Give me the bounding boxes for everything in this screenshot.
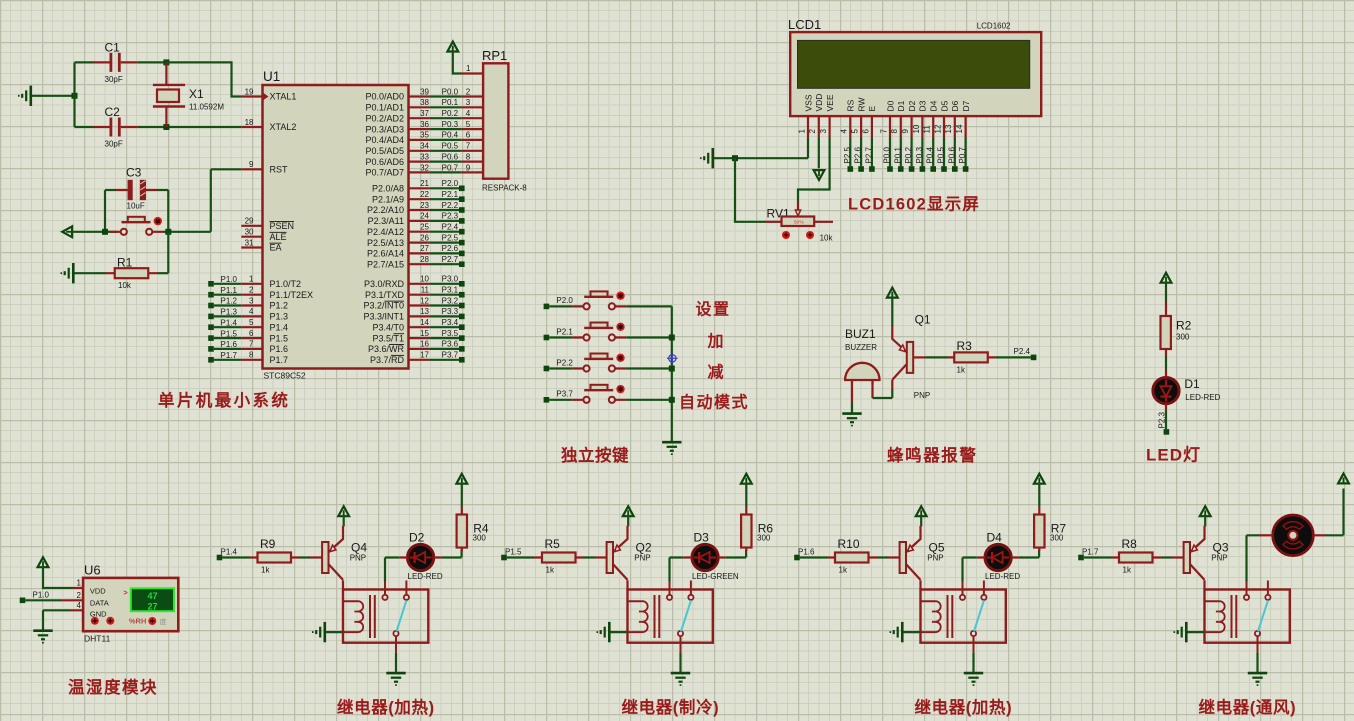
node P2.0 terminal (544, 304, 550, 310)
svg-text:28: 28 (420, 255, 429, 264)
wire (222, 556, 249, 558)
svg-text:PNP: PNP (927, 554, 943, 563)
RP1 pin stubs (462, 74, 483, 173)
svg-text:P2.7/A15: P2.7/A15 (367, 259, 404, 269)
wire (167, 190, 169, 232)
svg-text:RS: RS (846, 99, 856, 111)
wire (343, 516, 345, 527)
wire (441, 550, 461, 558)
svg-text:23: 23 (420, 201, 429, 210)
svg-text:继电器(加热): 继电器(加热) (915, 697, 1013, 717)
svg-text:X1: X1 (189, 87, 204, 101)
wire (626, 399, 672, 401)
ground (relay coil) (890, 622, 902, 642)
svg-text:P0.7/AD7: P0.7/AD7 (365, 168, 404, 178)
svg-text:RST: RST (270, 165, 289, 175)
power flag (RP1) (447, 42, 458, 52)
wire (851, 403, 853, 413)
wire (157, 189, 168, 191)
buzzer BUZ1 (845, 327, 880, 403)
power flag (motor) (1338, 474, 1349, 484)
svg-text:度: 度 (160, 617, 167, 626)
wire to RV1 (735, 158, 766, 222)
wire (461, 483, 463, 507)
node P1.4 terminal (217, 555, 223, 561)
svg-text:37: 37 (420, 109, 429, 118)
wire (670, 558, 684, 582)
svg-text:1: 1 (797, 129, 806, 134)
buzzer right leg (871, 380, 873, 398)
relay (加热) (921, 581, 1006, 653)
svg-text:独立按键: 独立按键 (561, 445, 629, 465)
junction (165, 229, 171, 235)
wire (32, 95, 75, 97)
motor (fan) (1273, 515, 1314, 556)
push button P2.0 (572, 291, 626, 309)
svg-text:D2: D2 (907, 100, 917, 111)
wire (1019, 550, 1039, 558)
svg-text:P0.0: P0.0 (442, 87, 459, 96)
svg-text:LED灯: LED灯 (1146, 446, 1201, 465)
power flag (Q4) (338, 506, 349, 516)
svg-text:P0.7: P0.7 (442, 163, 459, 172)
ground (reset section) (61, 263, 73, 283)
svg-text:P3.5: P3.5 (442, 329, 459, 338)
svg-text:P2.0: P2.0 (442, 179, 459, 188)
svg-text:E: E (867, 106, 877, 112)
svg-text:1k: 1k (1123, 566, 1132, 575)
svg-text:300: 300 (1176, 333, 1190, 342)
svg-text:D1: D1 (896, 100, 906, 111)
power flag (LED) (1161, 273, 1172, 283)
svg-text:P2.5: P2.5 (442, 233, 459, 242)
svg-text:LED-RED: LED-RED (408, 572, 443, 581)
wire (385, 558, 399, 582)
power flag (R4) (456, 474, 467, 484)
svg-text:P1.1/T2EX: P1.1/T2EX (270, 290, 314, 300)
ground (relay contact) (671, 673, 690, 685)
svg-text:5: 5 (851, 129, 860, 134)
svg-text:P1.1: P1.1 (221, 286, 238, 295)
svg-text:8: 8 (890, 129, 899, 134)
svg-text:P0.5: P0.5 (937, 146, 946, 163)
node P1.0 terminal (20, 598, 26, 604)
wire (549, 399, 572, 401)
svg-text:BUZZER: BUZZER (845, 343, 877, 352)
svg-text:5: 5 (466, 120, 471, 129)
svg-text:P2.7: P2.7 (864, 146, 873, 163)
power flag (Q3) (1200, 506, 1211, 516)
wire (326, 631, 343, 633)
node P2.2 terminal (544, 366, 550, 372)
svg-text:设置: 设置 (696, 301, 731, 319)
ground (relay contact) (964, 673, 983, 685)
svg-text:3: 3 (819, 129, 828, 134)
svg-text:P3.7: P3.7 (556, 390, 573, 399)
wire (75, 126, 94, 128)
svg-text:30pF: 30pF (105, 140, 123, 149)
junction (163, 59, 169, 65)
wire (891, 297, 893, 326)
svg-text:蜂鸣器报警: 蜂鸣器报警 (887, 445, 978, 465)
svg-text:8: 8 (249, 351, 254, 360)
svg-text:21: 21 (420, 179, 429, 188)
wire (1204, 516, 1206, 527)
resistor R9 (250, 537, 300, 575)
wire (72, 231, 117, 233)
svg-text:39: 39 (420, 87, 429, 96)
svg-text:P0.6: P0.6 (947, 146, 956, 163)
wire (800, 556, 827, 558)
wire (549, 336, 572, 338)
wire (877, 556, 888, 558)
capacitor C3 (116, 166, 157, 211)
node P1.6 terminal (794, 555, 800, 561)
svg-text:D4: D4 (929, 100, 939, 111)
svg-text:P3.5/T1: P3.5/T1 (372, 333, 404, 343)
wire (1165, 357, 1167, 370)
svg-text:32: 32 (420, 163, 429, 172)
svg-text:P0.2/AD2: P0.2/AD2 (365, 113, 404, 123)
svg-text:GND: GND (90, 610, 107, 619)
wire collector (1203, 580, 1205, 589)
wire collector (626, 580, 628, 589)
resistor R6 (741, 507, 773, 552)
svg-text:DATA: DATA (90, 598, 109, 607)
svg-text:P1.4: P1.4 (221, 318, 238, 327)
svg-text:>: > (124, 590, 128, 597)
U1 left pin stubs (241, 97, 262, 360)
LCD1 pin numbers (797, 124, 964, 133)
diode D4 LED-RED (977, 530, 1021, 581)
relay (通风) (1205, 581, 1290, 653)
svg-text:P0.4: P0.4 (926, 146, 935, 163)
svg-text:P1.7: P1.7 (270, 355, 289, 365)
svg-text:9: 9 (466, 163, 471, 172)
svg-text:U6: U6 (84, 563, 101, 578)
svg-text:26: 26 (420, 233, 429, 242)
svg-text:P3.3/INT1: P3.3/INT1 (363, 312, 404, 322)
svg-text:29: 29 (245, 217, 254, 226)
wire (1084, 556, 1111, 558)
svg-text:VDD: VDD (90, 587, 106, 596)
svg-text:P2.3: P2.3 (442, 212, 459, 221)
wire (920, 516, 922, 527)
svg-text:10k: 10k (820, 234, 834, 243)
wire (105, 189, 116, 191)
wire (963, 558, 977, 582)
resistor R2 (1161, 301, 1192, 357)
svg-text:P2.7: P2.7 (442, 255, 459, 264)
svg-text:47: 47 (147, 591, 157, 601)
ground (crystal section) (19, 86, 31, 106)
svg-text:36: 36 (420, 120, 429, 129)
microcontroller U1 STC89C52 (263, 69, 409, 381)
diode D3 LED-GREEN (684, 530, 739, 581)
svg-text:P0.0/AD0: P0.0/AD0 (365, 92, 404, 102)
svg-text:继电器(通风): 继电器(通风) (1199, 697, 1297, 717)
node P1.5 terminal (501, 555, 507, 561)
svg-text:P0.3/AD3: P0.3/AD3 (365, 124, 404, 134)
svg-text:4: 4 (466, 109, 471, 118)
svg-text:24: 24 (420, 212, 429, 221)
wire (75, 272, 107, 274)
wire (1256, 653, 1258, 672)
wire (300, 556, 311, 558)
wire GND (43, 610, 70, 629)
svg-text:PNP: PNP (634, 554, 650, 563)
wire button common (671, 306, 673, 441)
wire collector (342, 580, 344, 589)
svg-text:P2.6: P2.6 (854, 146, 863, 163)
svg-text:14: 14 (420, 318, 429, 327)
svg-text:RP1: RP1 (482, 48, 507, 63)
svg-text:2: 2 (77, 591, 82, 600)
ground (relay coil) (313, 622, 325, 642)
svg-text:LCD1602: LCD1602 (977, 22, 1011, 31)
wire (626, 336, 672, 338)
svg-text:300: 300 (473, 534, 487, 543)
svg-text:P1.6: P1.6 (798, 547, 815, 556)
ground (relay coil) (597, 622, 609, 642)
svg-text:D0: D0 (885, 100, 895, 111)
svg-text:Q3: Q3 (1213, 540, 1229, 554)
transistor Q4 (310, 526, 367, 580)
svg-text:9: 9 (249, 160, 254, 169)
svg-text:P2.2: P2.2 (442, 201, 459, 210)
svg-text:16: 16 (420, 340, 429, 349)
svg-text:P0.4/AD4: P0.4/AD4 (365, 135, 404, 145)
svg-text:P2.1: P2.1 (556, 327, 573, 336)
svg-text:R5: R5 (545, 537, 561, 551)
wire VEE to RV1 wiper (798, 137, 830, 201)
reset push button (110, 217, 164, 235)
svg-text:P2.6/A14: P2.6/A14 (367, 249, 404, 259)
svg-text:35: 35 (420, 131, 429, 140)
svg-text:PSEN: PSEN (270, 221, 295, 231)
resistor R1 (106, 256, 158, 291)
svg-text:单片机最小系统: 单片机最小系统 (158, 390, 290, 410)
svg-text:P3.6/WR: P3.6/WR (368, 344, 405, 354)
svg-text:D4: D4 (987, 530, 1003, 544)
node P3.0-P3.7 terminals (430, 275, 465, 363)
wire (549, 367, 572, 369)
wire (453, 51, 462, 74)
relay (制冷) (628, 581, 713, 653)
wire (679, 653, 681, 672)
ground (buttons) (662, 442, 681, 454)
LCD module LCD1 (LCD1602) body (788, 17, 1041, 116)
svg-text:300: 300 (1050, 534, 1064, 543)
svg-text:加: 加 (707, 333, 726, 351)
svg-text:2: 2 (249, 285, 254, 294)
svg-text:P1.4: P1.4 (270, 322, 289, 332)
svg-text:2: 2 (808, 129, 817, 134)
junction (732, 155, 738, 161)
junction (669, 366, 675, 372)
node marker (origin) (667, 353, 678, 364)
U1 right pin numbers (420, 87, 429, 359)
svg-text:LCD1602显示屏: LCD1602显示屏 (848, 195, 980, 214)
svg-text:Q4: Q4 (351, 540, 367, 554)
svg-text:P1.4: P1.4 (221, 547, 238, 556)
svg-text:10: 10 (420, 275, 429, 284)
svg-text:R8: R8 (1122, 537, 1138, 551)
svg-text:C1: C1 (105, 41, 121, 55)
svg-text:P3.7: P3.7 (442, 351, 459, 360)
svg-text:EA: EA (270, 243, 282, 253)
svg-text:17: 17 (420, 351, 429, 360)
svg-text:P3.3: P3.3 (442, 307, 459, 316)
node P1.0-P1.7 terminals (208, 275, 241, 363)
push button P3.7 (572, 385, 626, 403)
svg-text:Q2: Q2 (636, 540, 652, 554)
svg-text:VDD: VDD (814, 94, 824, 112)
svg-text:15: 15 (420, 329, 429, 338)
LCD terminal squares (848, 166, 969, 172)
svg-text:P1.5: P1.5 (221, 329, 238, 338)
svg-text:P2.0/A8: P2.0/A8 (372, 184, 404, 194)
wire (1314, 534, 1327, 536)
power flag (Q5) (916, 506, 927, 516)
svg-text:R10: R10 (838, 537, 860, 551)
wire (1161, 556, 1172, 558)
svg-text:RESPACK-8: RESPACK-8 (482, 184, 527, 193)
svg-text:1k: 1k (957, 366, 966, 375)
svg-text:1: 1 (249, 275, 254, 284)
junction (72, 93, 78, 99)
svg-text:P0.2: P0.2 (904, 146, 913, 163)
svg-text:继电器(制冷): 继电器(制冷) (622, 697, 720, 717)
svg-text:P0.6/AD6: P0.6/AD6 (365, 157, 404, 167)
svg-text:PNP: PNP (914, 391, 930, 400)
svg-text:继电器(加热): 继电器(加热) (337, 697, 435, 717)
svg-text:C3: C3 (126, 166, 142, 180)
svg-text:11.0592M: 11.0592M (189, 103, 224, 112)
svg-text:P2.2/A10: P2.2/A10 (367, 205, 404, 215)
capacitor C2 (94, 105, 138, 149)
svg-text:P0.5/AD5: P0.5/AD5 (365, 146, 404, 156)
wire (1038, 483, 1040, 507)
svg-text:P0.2: P0.2 (442, 109, 459, 118)
node P2.1 terminal (544, 335, 550, 341)
svg-text:ALE: ALE (270, 232, 287, 242)
svg-text:9: 9 (901, 129, 910, 134)
LCD1 pin stubs (808, 116, 966, 137)
svg-text:LED-RED: LED-RED (985, 572, 1020, 581)
wire (627, 516, 629, 527)
U1 right pin names (363, 92, 404, 365)
resistor pack RP1 (482, 48, 527, 193)
wire (137, 61, 166, 63)
wire (972, 653, 974, 672)
svg-text:1k: 1k (839, 566, 848, 575)
svg-text:VEE: VEE (825, 94, 835, 111)
svg-text:%RH: %RH (129, 617, 147, 626)
svg-text:P3.7/RD: P3.7/RD (370, 355, 405, 365)
svg-text:22: 22 (420, 190, 429, 199)
svg-text:50%: 50% (794, 219, 804, 225)
svg-text:13: 13 (944, 124, 953, 133)
svg-text:P2.5/A13: P2.5/A13 (367, 238, 404, 248)
svg-text:D5: D5 (939, 100, 949, 111)
wire (1247, 535, 1260, 581)
svg-text:P0.1/AD1: P0.1/AD1 (365, 103, 404, 113)
svg-text:自动模式: 自动模式 (679, 393, 749, 412)
wire (1326, 489, 1344, 536)
wire (925, 356, 948, 358)
svg-text:P3.0: P3.0 (442, 275, 459, 284)
svg-text:4: 4 (77, 601, 82, 610)
wire (611, 631, 628, 633)
junction (163, 124, 169, 130)
svg-text:P0.3: P0.3 (915, 146, 924, 163)
svg-text:6: 6 (466, 131, 471, 140)
transistor Q3 (1172, 526, 1229, 580)
wire (507, 556, 534, 558)
resistor R3 (948, 339, 997, 375)
LCD data/ctrl terminal wires (850, 137, 965, 166)
junction (669, 335, 675, 341)
svg-text:13: 13 (420, 307, 429, 316)
svg-text:P2.3/A11: P2.3/A11 (368, 216, 404, 226)
wire (1259, 534, 1273, 536)
svg-text:RW: RW (856, 97, 866, 111)
sensor U6 DHT11 body (83, 563, 178, 644)
wire (75, 61, 94, 63)
svg-text:4: 4 (249, 307, 254, 316)
wire P0 bus to RP1 (430, 97, 462, 173)
U1 left pin names (270, 92, 314, 365)
junction (102, 229, 108, 235)
svg-text:P1.0: P1.0 (33, 591, 50, 600)
svg-text:P1.2: P1.2 (221, 297, 238, 306)
svg-text:D6: D6 (950, 100, 960, 111)
svg-text:6: 6 (861, 129, 870, 134)
wire (626, 367, 672, 369)
wire (167, 232, 169, 273)
power flag (Q2) (623, 506, 634, 516)
potentiometer RV1 (766, 201, 833, 243)
svg-text:P0.1: P0.1 (893, 146, 902, 163)
svg-text:7: 7 (879, 129, 888, 134)
svg-text:C2: C2 (105, 105, 121, 119)
power flag (VCC, reset) (62, 226, 72, 237)
ground (relay contact) (386, 673, 405, 685)
svg-text:LED-RED: LED-RED (1185, 393, 1220, 402)
svg-text:30: 30 (245, 228, 254, 237)
svg-text:12: 12 (933, 124, 942, 133)
svg-text:D3: D3 (694, 530, 710, 544)
capacitor C1 (94, 41, 138, 85)
LCD1 pin names (803, 94, 971, 112)
svg-text:R3: R3 (957, 339, 973, 353)
svg-text:30pF: 30pF (105, 75, 123, 84)
svg-text:P1.0: P1.0 (221, 275, 238, 284)
svg-text:P2.2: P2.2 (556, 358, 573, 367)
wire to XTAL1 (166, 62, 241, 96)
wire to RST (164, 169, 242, 232)
svg-text:38: 38 (420, 98, 429, 107)
transistor Q5 (888, 526, 945, 580)
diode D2 LED-RED (399, 530, 443, 581)
svg-text:7: 7 (466, 142, 471, 151)
svg-text:P1.5: P1.5 (505, 547, 522, 556)
svg-text:300: 300 (757, 534, 771, 543)
svg-text:P1.6: P1.6 (270, 344, 289, 354)
svg-text:R2: R2 (1176, 319, 1192, 333)
RP1 pin numbers (466, 64, 471, 172)
